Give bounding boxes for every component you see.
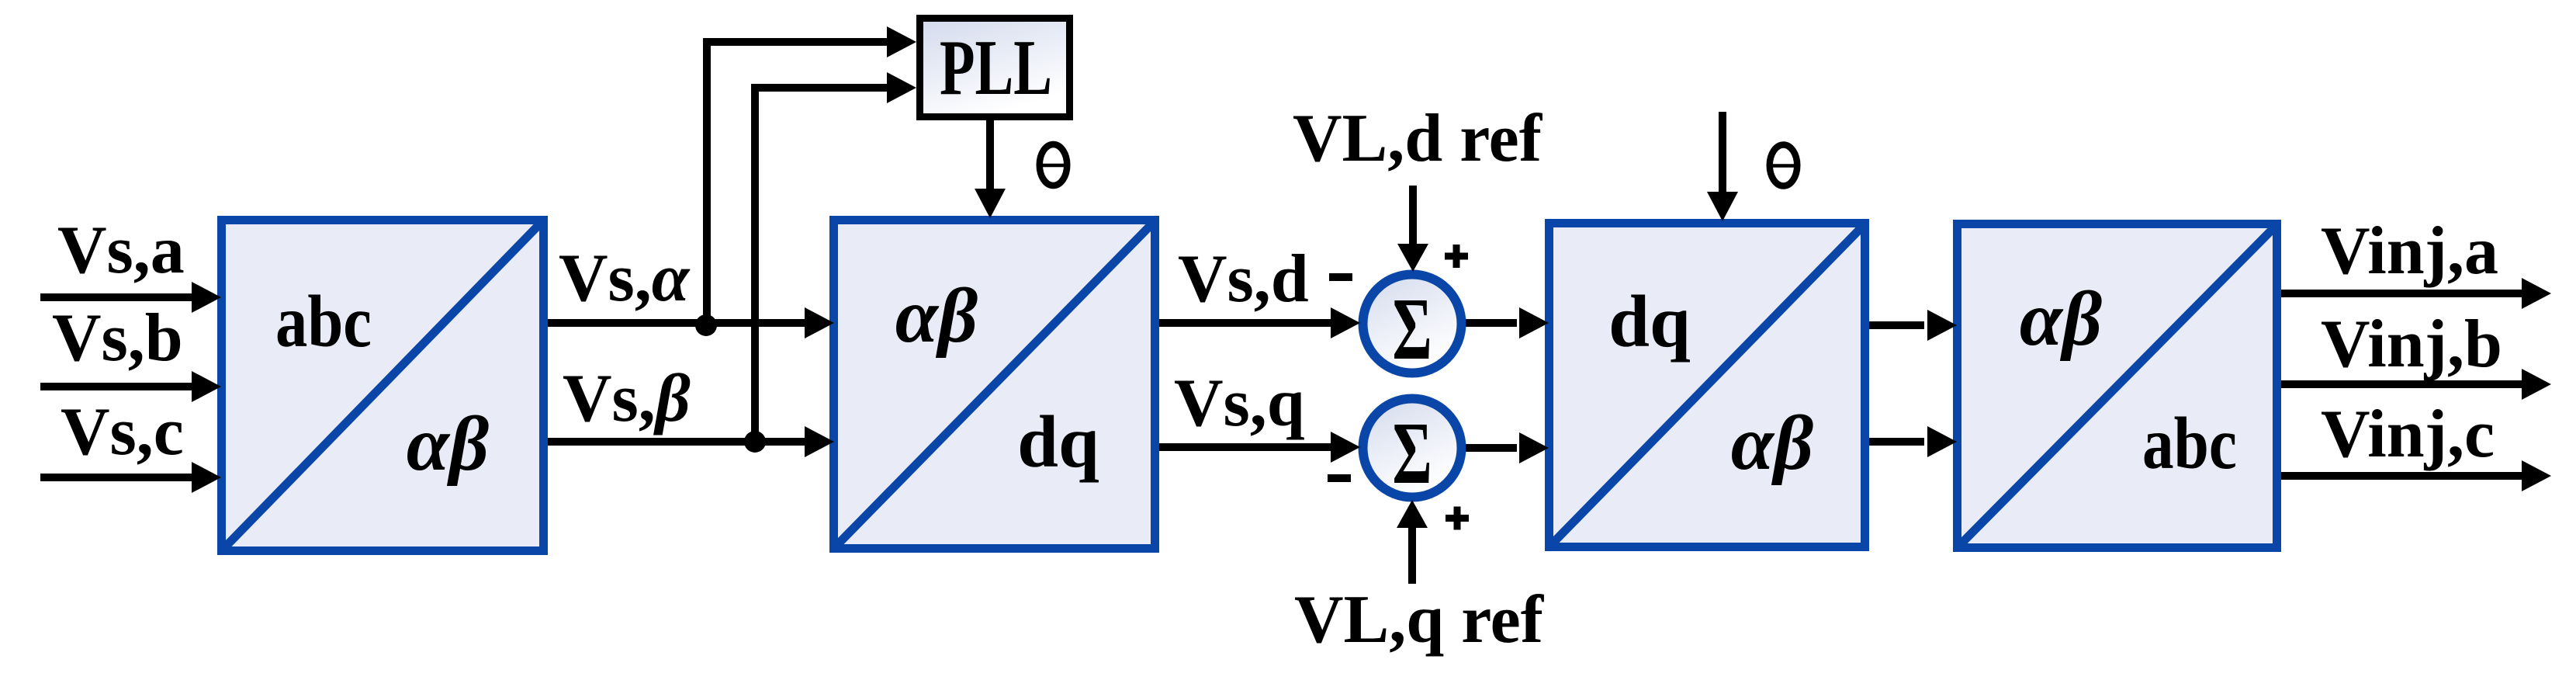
wire riser J2 to PLL input 2 — [755, 72, 916, 442]
svg-text:Vs,q: Vs,q — [1174, 366, 1305, 441]
svg-text:Vs,a: Vs,a — [57, 213, 185, 288]
wire VL,q ref into S2 — [1294, 500, 1545, 658]
wire S1 to B3 — [1466, 307, 1549, 338]
node junction J1 on Vs,alpha — [695, 314, 717, 336]
wire riser J1 to PLL input 1 — [707, 26, 916, 323]
wire Vs,q B2 to S2 — [1159, 366, 1360, 463]
block U4 alphabeta/abc transform — [1957, 224, 2277, 549]
svg-text:Vs,d: Vs,d — [1178, 241, 1309, 317]
block U1 abc/alphabeta transform — [221, 220, 544, 551]
svg-text:Vinj,c: Vinj,c — [2321, 397, 2495, 472]
wire theta into B3 — [1707, 112, 1797, 221]
wire output Vinj,a — [2281, 213, 2551, 309]
minus sign at S1 input — [1329, 273, 1352, 281]
summing junction S1 — [1363, 275, 1462, 379]
plus sign at S2 bottom input — [1446, 507, 1469, 530]
svg-text:abc: abc — [2142, 402, 2237, 484]
wire S2 to B3 — [1466, 432, 1549, 463]
svg-text:αβ: αβ — [407, 401, 490, 487]
node junction J2 on Vs,beta — [744, 431, 766, 453]
svg-text:VL,q ref: VL,q ref — [1294, 582, 1545, 658]
block U2 alphabeta/dq transform — [833, 220, 1155, 550]
svg-text:VL,d ref: VL,d ref — [1293, 101, 1543, 176]
svg-text:Vs,β: Vs,β — [563, 361, 691, 436]
svg-text:Σ: Σ — [1392, 279, 1432, 378]
wire B3 to B4 row 2 — [1869, 426, 1957, 457]
svg-text:αβ: αβ — [1731, 400, 1814, 486]
wire input Vs,c — [40, 394, 221, 493]
svg-text:αβ: αβ — [2020, 276, 2103, 362]
wire PLL theta output — [975, 120, 1067, 218]
wire B3 to B4 row 1 — [1869, 310, 1957, 341]
svg-text:Vs,b: Vs,b — [52, 300, 183, 376]
block U3 dq/alphabeta transform — [1549, 224, 1865, 548]
svg-text:dq: dq — [1017, 401, 1099, 483]
svg-text:Vinj,a: Vinj,a — [2321, 213, 2498, 289]
wire output Vinj,b — [2281, 307, 2551, 400]
block U5 PLL — [920, 19, 1070, 117]
wire Vs,d B2 to S1 — [1159, 241, 1360, 338]
svg-text:Σ: Σ — [1392, 404, 1432, 502]
wire Vs,beta B1 to B2 — [548, 361, 834, 457]
svg-text:dq: dq — [1608, 280, 1691, 363]
svg-text:Vs,α: Vs,α — [559, 241, 691, 316]
wire output Vinj,c — [2281, 397, 2551, 491]
svg-text:abc: abc — [275, 280, 372, 363]
summing junction S2 — [1363, 399, 1462, 503]
svg-text:Vs,c: Vs,c — [61, 394, 184, 470]
wire VL,d ref into S1 — [1293, 101, 1543, 272]
wire input Vs,a — [40, 213, 221, 313]
svg-text:αβ: αβ — [895, 272, 978, 359]
wire input Vs,b — [40, 300, 221, 402]
plus sign at S1 top input — [1445, 245, 1468, 268]
minus sign at S2 input — [1328, 474, 1351, 482]
svg-text:PLL: PLL — [940, 24, 1052, 112]
wire Vs,alpha B1 to B2 — [548, 241, 834, 338]
svg-text:Vinj,b: Vinj,b — [2321, 307, 2502, 382]
